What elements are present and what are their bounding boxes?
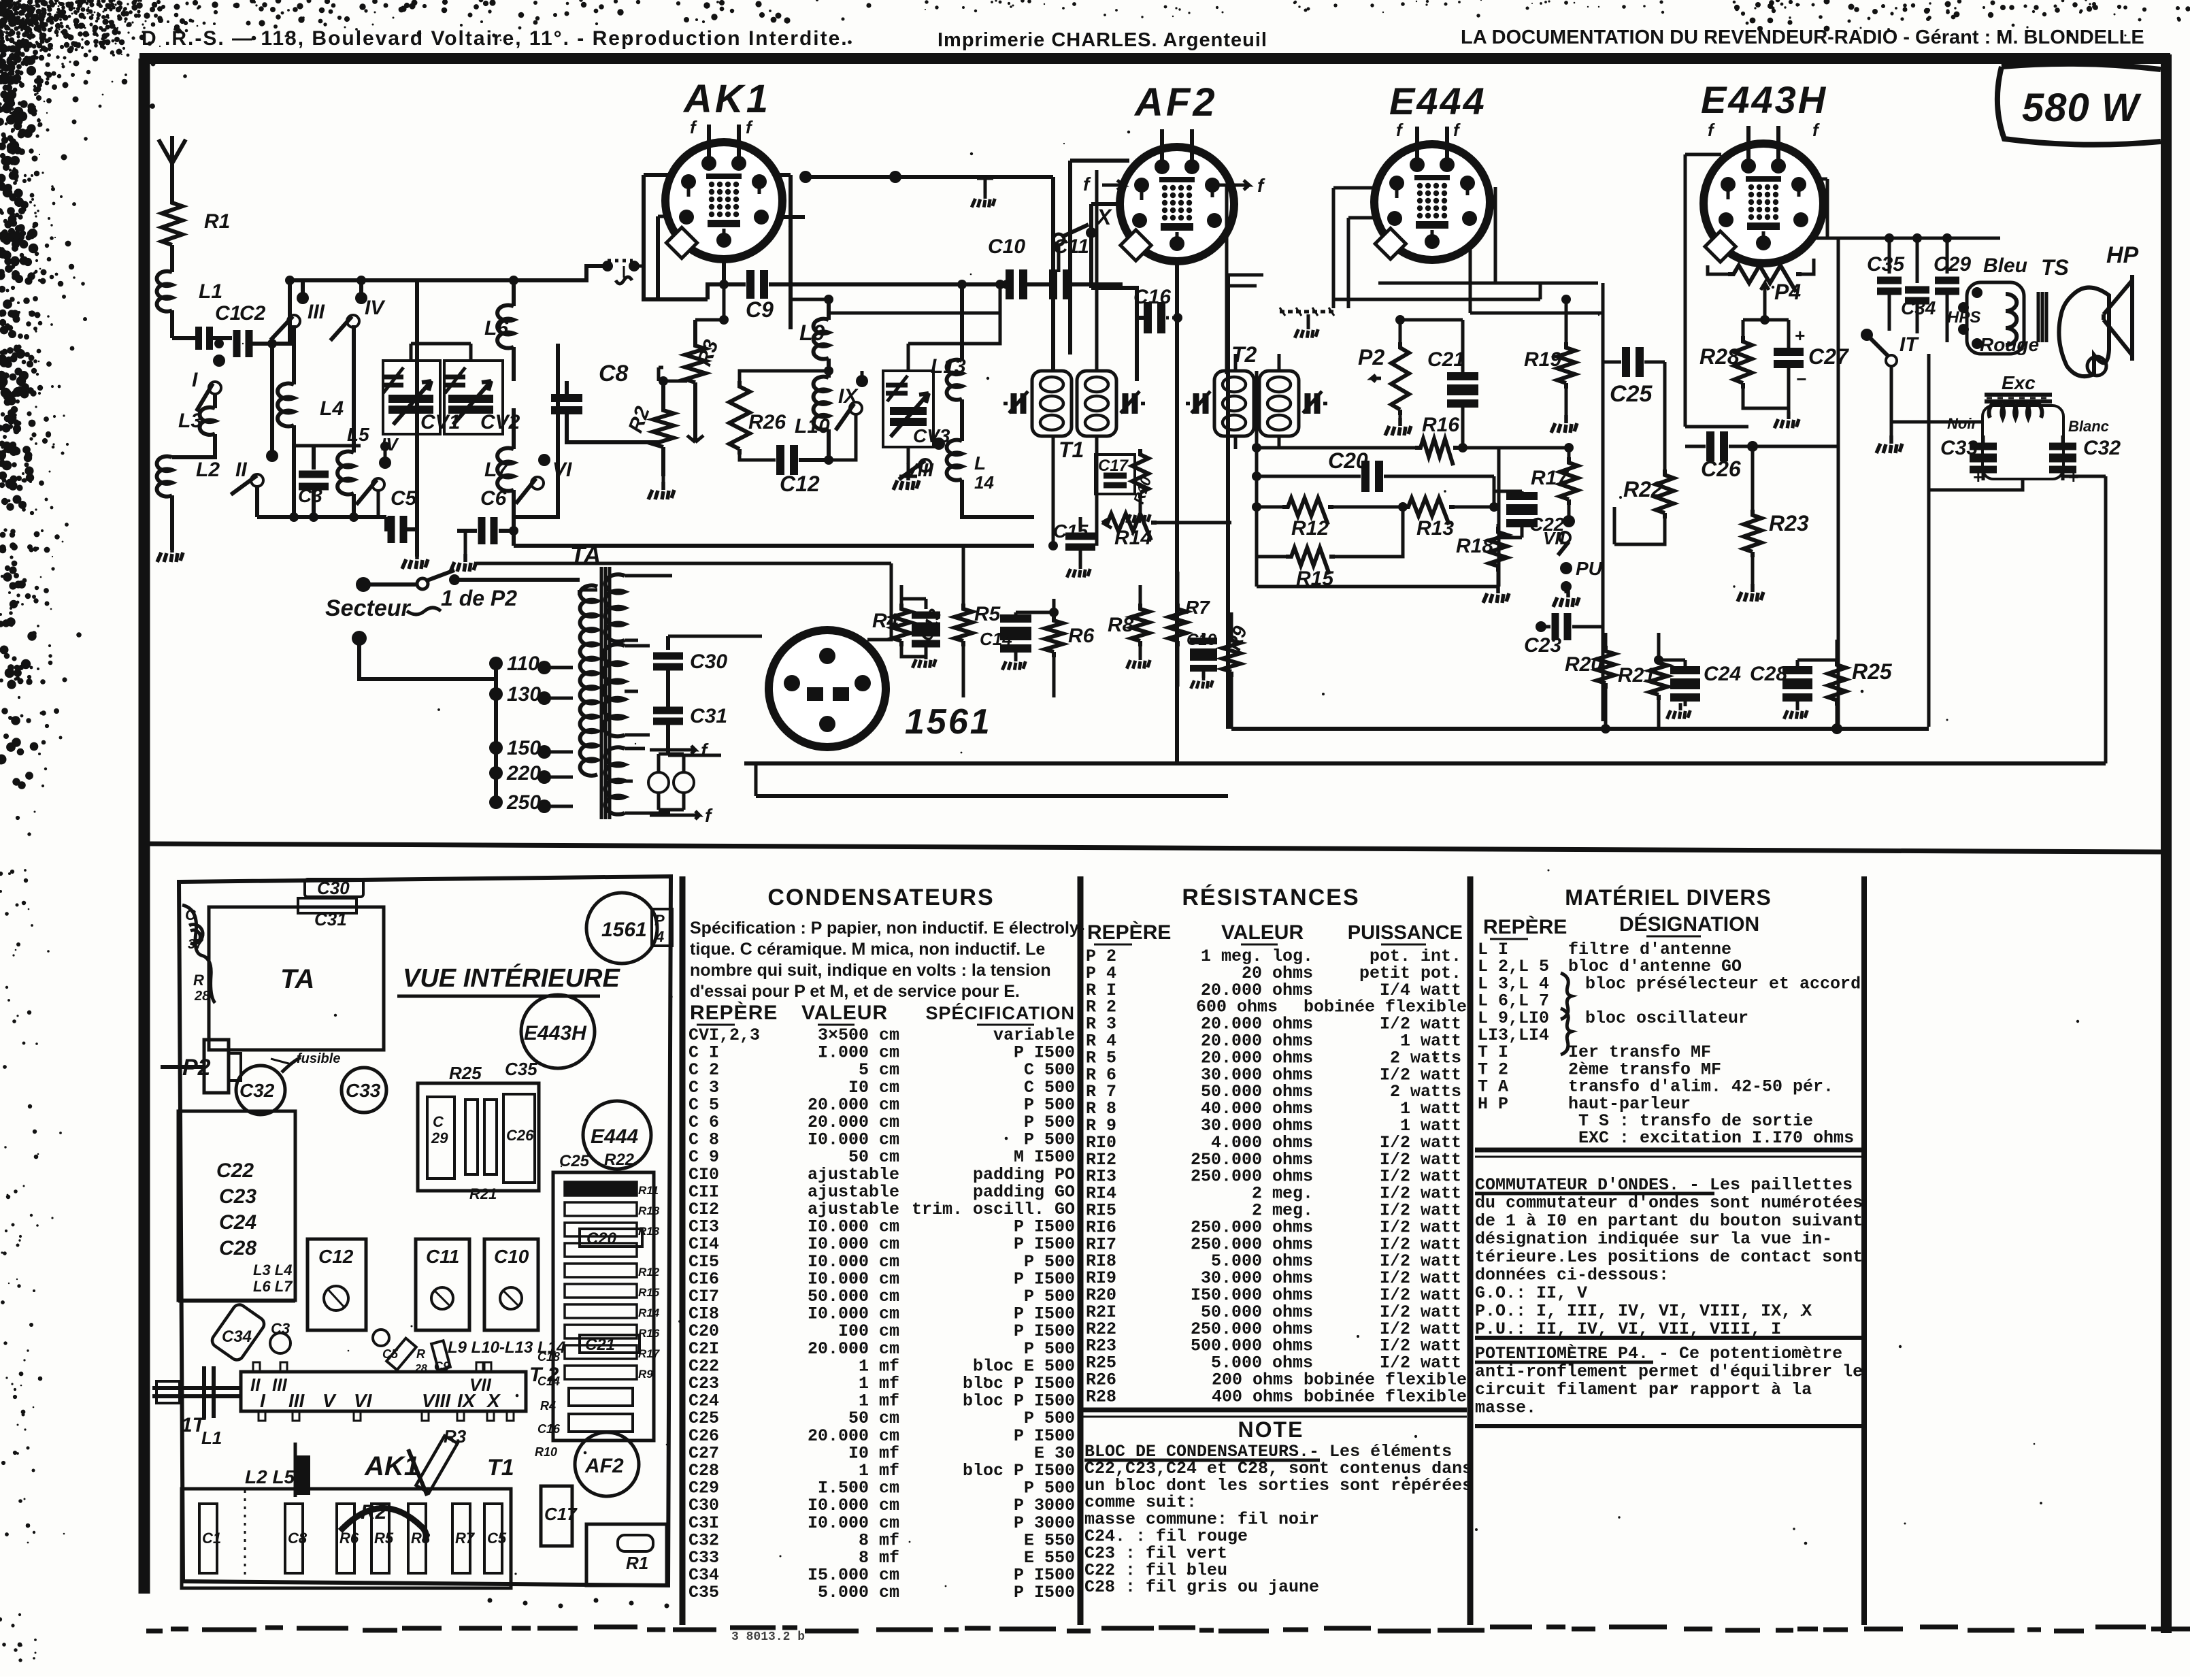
svg-text:X: X: [486, 1390, 501, 1411]
svg-text:R: R: [193, 972, 204, 989]
svg-text:III: III: [272, 1374, 287, 1395]
switch VIII: [899, 438, 945, 480]
switch IT: [1861, 325, 1919, 453]
svg-text:nombre qui suit, indique en vo: nombre qui suit, indique en volts : la t…: [690, 961, 1051, 980]
wire: [659, 259, 729, 381]
field coil Exc: [1982, 372, 2063, 479]
svg-text:fusible: fusible: [297, 1051, 340, 1066]
svg-text:130: 130: [507, 683, 541, 706]
wire: [170, 250, 174, 272]
svg-text:C33: C33: [346, 1080, 381, 1101]
svg-text:C29: C29: [1934, 253, 1971, 276]
svg-text:P2: P2: [1358, 345, 1384, 369]
chassis capacitor C32: [236, 1057, 301, 1115]
svg-text:C3: C3: [271, 1320, 290, 1337]
resistor R10: [1127, 449, 1155, 523]
wire AF2 anode down: [1175, 261, 1179, 763]
svg-text:R1: R1: [626, 1553, 648, 1573]
svg-text:désignation indiquée sur la: désignation indiquée sur la vue in-: [1475, 1230, 1832, 1249]
svg-text:V: V: [322, 1390, 337, 1411]
svg-text:L3 L4: L3 L4: [253, 1262, 292, 1279]
variable capacitor CV2: [411, 344, 520, 434]
svg-text:R21: R21: [469, 1185, 497, 1202]
svg-text:R18: R18: [638, 1204, 660, 1217]
svg-text:R10: R10: [535, 1445, 557, 1459]
chassis resistor R3: [416, 1426, 466, 1493]
svg-text:C12: C12: [780, 472, 820, 496]
chassis tube E443H: [521, 995, 595, 1068]
svg-text:C25: C25: [1610, 381, 1653, 407]
svg-text:C14: C14: [980, 629, 1012, 649]
svg-text:L3: L3: [178, 410, 202, 432]
capacitor C5: [386, 487, 418, 543]
wire AF2 right down: [1215, 185, 1257, 374]
capacitor C6: [457, 487, 518, 546]
svg-text:H P: H P: [1478, 1094, 1508, 1114]
tube AF2: [1120, 129, 1234, 261]
svg-text:C32: C32: [239, 1080, 275, 1101]
svg-text:C31: C31: [314, 909, 347, 929]
chassis small parts C3 C9: [270, 1320, 450, 1374]
svg-text:P4: P4: [1774, 280, 1801, 304]
label Bleu: [1972, 254, 2027, 298]
variable capacitor CV1: [382, 344, 460, 434]
svg-text:C34: C34: [222, 1328, 252, 1346]
switch III: [271, 280, 325, 340]
svg-text:C30: C30: [690, 650, 727, 673]
svg-text:C22: C22: [216, 1159, 254, 1182]
svg-text:VII: VII: [1543, 528, 1565, 548]
svg-text:C23: C23: [219, 1185, 256, 1208]
chassis capacitor C30 strip: [298, 878, 363, 929]
svg-text:R28: R28: [1699, 344, 1740, 369]
coil L9: [791, 295, 833, 378]
svg-text:R7: R7: [1185, 597, 1210, 618]
capacitor C26: [1685, 431, 1838, 481]
svg-text:II: II: [235, 459, 247, 481]
svg-text:R17: R17: [1531, 467, 1569, 489]
svg-text:R12: R12: [1291, 517, 1329, 540]
svg-text:RÉSISTANCES: RÉSISTANCES: [1182, 885, 1359, 910]
chassis coil detail: [182, 905, 215, 1004]
switch VII: [1543, 515, 1603, 607]
svg-text:IT: IT: [1899, 333, 1919, 356]
capacitor C27: [1774, 320, 1850, 428]
capacitor C12: [740, 445, 833, 496]
switch VI: [516, 454, 572, 504]
svg-text:C35: C35: [505, 1059, 537, 1079]
svg-text:C23: C23: [1524, 634, 1561, 657]
wire AK1 right frame: [763, 175, 805, 329]
svg-text:C5: C5: [382, 1347, 399, 1361]
resistor R4: [872, 585, 926, 657]
coil L10: [795, 377, 830, 460]
resistor R14: [1102, 514, 1231, 549]
svg-text:L9: L9: [799, 320, 825, 345]
svg-text:anti-ronflement permet d'équil: anti-ronflement permet d'équilibrer le: [1475, 1362, 1863, 1382]
svg-text:R1: R1: [204, 210, 230, 233]
coil L1: [157, 271, 222, 338]
svg-text:R8: R8: [411, 1530, 431, 1547]
svg-text:D .R.-S. — 118, Boulevard Volt: D .R.-S. — 118, Boulevard Voltaire, 11°.…: [142, 27, 848, 50]
svg-text:R15: R15: [1296, 567, 1334, 590]
svg-text:R7: R7: [455, 1530, 476, 1547]
table condensateurs: [688, 885, 1084, 1602]
svg-text:C17: C17: [1098, 457, 1129, 475]
svg-text:Blanc: Blanc: [2068, 418, 2109, 435]
resistor R15: [1257, 507, 1403, 590]
svg-text:C3: C3: [298, 485, 322, 506]
resistor R7: [1169, 572, 1210, 687]
capacitor C2: [213, 302, 272, 357]
svg-text:C32: C32: [2083, 437, 2121, 459]
svg-text:C10: C10: [494, 1246, 529, 1267]
svg-text:C21: C21: [1427, 348, 1465, 371]
title VUE INTERIEURE: [397, 963, 620, 996]
svg-text:R16: R16: [1422, 414, 1459, 436]
svg-text:PUISSANCE: PUISSANCE: [1348, 922, 1463, 944]
svg-text:VALEUR: VALEUR: [1221, 921, 1304, 944]
wire T2 leads: [1235, 354, 1279, 449]
svg-text:G.O.: II, V: G.O.: II, V: [1475, 1283, 1587, 1303]
switch IV: [331, 280, 386, 341]
resistor R22: [1614, 362, 1674, 544]
svg-text:R3: R3: [444, 1426, 467, 1447]
chassis outline: [179, 876, 671, 1585]
chassis label AK1: [364, 1449, 427, 1496]
svg-text:C10: C10: [988, 235, 1025, 258]
svg-text:C31: C31: [690, 705, 727, 727]
capacitor C15: [1053, 517, 1095, 578]
label Noir: [1947, 415, 1978, 432]
svg-text:II: II: [250, 1374, 261, 1395]
capacitor C32: [2049, 435, 2121, 489]
svg-text:EXC : excitation I.I70 ohms: EXC : excitation I.I70 ohms: [1578, 1128, 1854, 1148]
capacitor C29: [1934, 233, 1971, 342]
chassis label T1: [487, 1455, 514, 1481]
potentiometer P2: [1358, 315, 1463, 435]
svg-text:T1: T1: [487, 1455, 514, 1481]
capacitor C9: [708, 270, 1007, 322]
svg-text:14: 14: [974, 472, 994, 493]
svg-text:Secteur: Secteur: [325, 595, 411, 621]
wire AF2 frames: [1053, 161, 1148, 381]
transformer TA taps: [489, 653, 573, 814]
chassis tube E444: [583, 1101, 651, 1169]
coil L14: [947, 440, 1034, 517]
svg-text:L6: L6: [484, 317, 508, 340]
svg-text:REPÈRE: REPÈRE: [1087, 921, 1171, 944]
svg-text:C35: C35: [688, 1583, 719, 1602]
svg-text:AK1: AK1: [682, 77, 771, 121]
svg-text:E444: E444: [591, 1125, 638, 1148]
capacitor C34: [1901, 233, 1936, 333]
svg-text:VI: VI: [552, 459, 572, 481]
svg-text:R17: R17: [638, 1347, 661, 1360]
svg-text:C20: C20: [586, 1230, 617, 1248]
capacitor C1: [172, 302, 241, 350]
resistor R12: [1252, 498, 1403, 540]
svg-text:C26: C26: [506, 1127, 534, 1144]
chassis mounting dots: [488, 1598, 669, 1609]
svg-text:C16: C16: [537, 1422, 561, 1436]
resistor R18: [1456, 524, 1522, 603]
svg-text:C30: C30: [317, 878, 350, 898]
svg-text:IX: IX: [838, 385, 859, 408]
svg-text:du commutateur d'ondes sont nu: du commutateur d'ondes sont numérotées: [1475, 1193, 1863, 1213]
svg-text:térieure.Les positions de cont: térieure.Les positions de contact sont: [1475, 1247, 1863, 1267]
resistor R26: [729, 366, 833, 455]
svg-text:bloc présélecteur et accord: bloc présélecteur et accord: [1585, 974, 1861, 993]
resistor R8: [1108, 585, 1150, 669]
svg-text:C6: C6: [480, 487, 507, 510]
label Blanc: [2068, 418, 2109, 435]
wire E444 frames: [1333, 187, 1603, 313]
switch I: [192, 355, 225, 411]
svg-text:VUE INTÉRIEURE: VUE INTÉRIEURE: [403, 963, 620, 993]
label Rouge: [1972, 334, 2039, 355]
wire: [172, 434, 215, 457]
svg-text:L2 L5: L2 L5: [245, 1466, 295, 1487]
tube E444: [1374, 127, 1490, 260]
chassis trimmer C12: [308, 1239, 366, 1330]
svg-text:SPÉCIFICATION: SPÉCIFICATION: [925, 1002, 1075, 1023]
potentiometer P4: [1708, 259, 1814, 320]
wire f arrows AF2: [1083, 174, 1265, 196]
chassis pot P2: [161, 1040, 340, 1093]
svg-text:C1: C1: [215, 302, 241, 325]
ground: [893, 472, 919, 490]
svg-text:R4: R4: [872, 610, 899, 632]
svg-text:CONDENSATEURS: CONDENSATEURS: [767, 885, 994, 910]
IF transformer T1: [1003, 371, 1145, 462]
switch II: [231, 339, 278, 517]
ground: [157, 544, 183, 562]
svg-text:R8: R8: [1108, 614, 1134, 636]
svg-text:C24: C24: [1704, 663, 1741, 685]
wire vertical x1847: [1257, 371, 1499, 587]
svg-text:1561: 1561: [905, 702, 992, 742]
resistor R21: [1618, 633, 1668, 729]
svg-text:AF2: AF2: [1133, 80, 1218, 125]
coil L2: [157, 457, 220, 550]
transformer TA secondary mid: [603, 644, 650, 736]
svg-text:C24: C24: [219, 1211, 256, 1234]
svg-text:DÉSIGNATION: DÉSIGNATION: [1619, 912, 1759, 936]
svg-text:R11: R11: [638, 1184, 659, 1197]
chassis trimmer C11: [416, 1239, 469, 1330]
chassis shaft 1T: [152, 1366, 241, 1436]
wire vertical x1805: [1228, 275, 1263, 729]
svg-text:150: 150: [507, 737, 541, 759]
svg-text:R19: R19: [1524, 348, 1561, 371]
switch IX: [829, 371, 868, 460]
wire long bus y802: [514, 544, 1034, 548]
svg-text:P I500: P I500: [1014, 1583, 1075, 1602]
transformer TA secondary fil: [605, 747, 670, 814]
svg-text:IX: IX: [457, 1390, 477, 1411]
table materiel divers: [1475, 885, 1863, 1426]
svg-text:P.O.: I, III, IV, VI, VIII, IX: P.O.: I, III, IV, VI, VIII, IX, X: [1475, 1302, 1812, 1321]
capacitor C24: [1654, 655, 1741, 719]
resistor R19: [1524, 295, 1577, 433]
svg-text:C25: C25: [559, 1152, 590, 1170]
resistor R5: [955, 544, 1001, 697]
resistor R28: [1699, 315, 1789, 408]
ground: [450, 531, 476, 572]
resistor R25: [1828, 640, 1893, 734]
svg-text:III: III: [308, 301, 325, 323]
wire top bus AK1: [417, 266, 605, 280]
svg-text:I: I: [192, 369, 198, 391]
svg-text:de 1 à I0 en partant du bouton: de 1 à I0 en partant du bouton suivant: [1475, 1211, 1863, 1231]
svg-text:masse.: masse.: [1475, 1398, 1536, 1418]
svg-text:NOTE: NOTE: [1238, 1417, 1304, 1442]
capacitor C17 box: [1095, 455, 1135, 494]
svg-text:R12: R12: [638, 1266, 660, 1279]
coil L3: [178, 395, 215, 435]
chassis label T2: [529, 1364, 559, 1386]
svg-text:L: L: [974, 452, 986, 474]
svg-text:Exc: Exc: [2002, 372, 2036, 393]
svg-text:LA DOCUMENTATION DU REVENDEUR-: LA DOCUMENTATION DU REVENDEUR-RADIO - Gé…: [1461, 27, 2144, 48]
resistor R9: [1223, 612, 1251, 729]
capacitor C25: [1603, 283, 1665, 721]
switch 1 de P2: [325, 570, 580, 621]
svg-text:37: 37: [188, 937, 203, 952]
handwritten note 580W: [1997, 64, 2161, 145]
wire rect frame: [476, 563, 891, 755]
svg-text:580 W: 580 W: [2022, 86, 2142, 130]
resistor R16: [1252, 414, 1574, 465]
svg-text:REPÈRE: REPÈRE: [690, 1001, 778, 1024]
variable capacitor CV3: [883, 344, 950, 476]
svg-text:L7: L7: [484, 459, 509, 481]
resistor R13: [1398, 498, 1494, 540]
hum resistor dotted: [1280, 308, 1334, 338]
antenna: [159, 136, 186, 197]
capacitor C35: [1867, 233, 1905, 325]
svg-text:C11: C11: [426, 1246, 459, 1267]
ground: [402, 517, 428, 569]
svg-text:+: +: [1795, 327, 1806, 347]
svg-text:T 2: T 2: [529, 1364, 559, 1386]
svg-text:R14: R14: [1114, 527, 1152, 549]
chassis pot P4: [652, 909, 672, 946]
svg-text:C2: C2: [239, 302, 266, 325]
svg-text:L5: L5: [347, 424, 369, 445]
chassis coil L1: [201, 1428, 310, 1497]
svg-text:L4: L4: [320, 397, 344, 420]
svg-text:R14: R14: [638, 1306, 660, 1319]
wire bottom bus left: [257, 512, 386, 522]
svg-text:R4: R4: [540, 1399, 556, 1413]
coil L7: [484, 408, 514, 517]
resistor R23: [1738, 446, 1809, 602]
ground: [648, 476, 674, 499]
wire mains lower: [352, 631, 496, 679]
svg-text:R22: R22: [604, 1151, 635, 1169]
header line: [142, 27, 2144, 51]
svg-text:R28: R28: [1086, 1387, 1116, 1406]
svg-text:I: I: [260, 1390, 266, 1411]
label AK1: [682, 77, 771, 137]
svg-text:R5: R5: [374, 1530, 394, 1547]
transformer TA primary: [580, 585, 597, 775]
svg-text:C35: C35: [1867, 253, 1905, 276]
svg-text:T1: T1: [1059, 438, 1084, 462]
chassis label L9 L10: [448, 1338, 565, 1357]
wire T1 leads: [1048, 170, 1097, 550]
capacitor C22: [1489, 476, 1565, 538]
chassis transformer TA box: [209, 907, 384, 1050]
svg-text:1561: 1561: [601, 919, 647, 941]
tube AK1: [665, 125, 782, 259]
svg-text:IV: IV: [365, 297, 386, 319]
wire band-switch frame: [272, 276, 417, 517]
svg-text:PU: PU: [1576, 558, 1603, 579]
svg-text:données ci-dessous:: données ci-dessous:: [1475, 1266, 1669, 1285]
capacitor C20: [1252, 448, 1494, 492]
svg-text:R9: R9: [638, 1368, 653, 1381]
wire bus y1122: [744, 761, 2106, 765]
resistor R3: [685, 320, 723, 442]
chassis tube 1561: [586, 893, 657, 963]
svg-text:VIII: VIII: [905, 459, 934, 480]
capacitor C28: [1750, 660, 1837, 719]
svg-text:3 8013.2 b: 3 8013.2 b: [731, 1630, 805, 1644]
svg-text:250: 250: [506, 791, 541, 814]
chassis bloc C22-C28: [178, 1111, 295, 1301]
svg-text:C16: C16: [1133, 286, 1171, 308]
capacitor C23: [1524, 613, 1603, 657]
svg-text:R6: R6: [1068, 625, 1095, 647]
label AF2: [1133, 80, 1218, 125]
resistor R17: [1531, 448, 1578, 517]
svg-text:−: −: [1796, 370, 1807, 391]
svg-text:R16: R16: [638, 1327, 660, 1340]
switch IV lower: [356, 434, 400, 517]
svg-text:AF2: AF2: [584, 1455, 624, 1477]
coil L5: [337, 325, 369, 517]
svg-text:E444: E444: [1389, 80, 1487, 122]
svg-text:C28 : fil gris ou jau: C28 : fil gris ou jaune: [1084, 1577, 1319, 1597]
transformer TA core: [601, 567, 610, 819]
svg-text:circuit filament par rapport: circuit filament par rapport à la: [1475, 1380, 1812, 1400]
wire output frame: [1891, 354, 2106, 763]
table resistances: [1083, 885, 1472, 1597]
wire AK1 left frame: [644, 175, 791, 299]
svg-text:P: P: [654, 912, 665, 929]
wire top bus mid: [799, 171, 1053, 183]
svg-text:tique. C céramique. M mica, no: tique. C céramique. M mica, non inductif…: [690, 940, 1045, 959]
wire osc top: [829, 280, 1005, 344]
chassis label L2L5: [245, 1466, 295, 1487]
chassis corner box: [586, 1524, 667, 1585]
coil L4: [278, 325, 344, 517]
label E443H: [1701, 78, 1827, 140]
coil L13: [931, 280, 967, 441]
chassis R1: [618, 1535, 653, 1573]
wire bus y1071: [1231, 727, 1929, 731]
wire E443H frames: [1685, 154, 2000, 727]
capacitor C14: [980, 612, 1031, 670]
chassis component column T2: [535, 1151, 661, 1459]
resistor R2: [625, 376, 674, 476]
chassis bottom components: [182, 1489, 511, 1588]
svg-text:5.000 cm: 5.000 cm: [818, 1583, 899, 1602]
capacitor C16: [1133, 286, 1182, 333]
